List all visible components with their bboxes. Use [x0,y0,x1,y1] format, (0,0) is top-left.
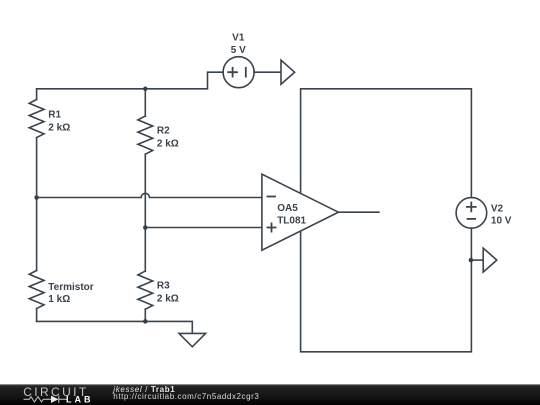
wire left vertical top (R1 lead) [36,89,38,100]
svg-text:http://circuitlab.com/c7n5addx: http://circuitlab.com/c7n5addx2cgr3 [113,392,259,401]
wire middle vertical top (R2 lead) [144,89,146,116]
resistor Termistor [29,271,44,309]
logo diode triangle [51,396,59,403]
svg-text:2 kΩ: 2 kΩ [157,293,179,304]
wire top horizontal from R1 to V1 step [37,72,224,89]
svg-text:2 kΩ: 2 kΩ [48,122,70,133]
op-amp plus input mark [267,223,277,233]
svg-text:2 kΩ: 2 kΩ [157,139,179,150]
wire V2 bottom flag stub [471,259,483,261]
wire op-amp output [338,211,379,213]
svg-text:5 V: 5 V [231,45,246,56]
op-amp OA5 triangle [262,174,339,250]
resistor R3 [138,271,153,309]
svg-text:OA5: OA5 [277,203,298,214]
ground symbol [179,333,206,346]
resistor R1 [29,100,44,138]
svg-text:10 V: 10 V [491,215,512,226]
wire noninverting input [145,227,262,229]
V2 plus sign [466,202,477,213]
net flag at V2 bottom node [483,248,497,272]
svg-text:TL081: TL081 [277,215,306,226]
V1 minus bar (rotated) [245,67,247,78]
node dot bottom R3 [143,319,148,324]
voltage source V2 circle [456,198,487,229]
wire middle vertical bottom [144,309,146,321]
svg-text:R3: R3 [157,280,170,291]
V1 plus sign [227,67,238,78]
svg-text:R2: R2 [157,126,170,137]
node dot V2 bottom [469,258,474,263]
wire bottom horizontal to ground [37,321,193,333]
resistor R2 [138,116,153,154]
footer bar [0,384,540,405]
node dot top R2 [143,87,148,92]
op-amp minus input mark [267,196,276,198]
V2 minus sign [467,218,476,220]
node dot middle noninverting [143,225,148,230]
wire middle vertical between R2 and R3 [144,154,146,271]
net flag at V1 output [281,60,295,84]
voltage source V1 circle [223,57,254,88]
plus minus marks [227,67,476,233]
wire V1 output to flag [254,71,281,73]
svg-text:LAB: LAB [66,394,94,404]
svg-text:R1: R1 [48,109,61,120]
logo glyph wire resistor diode [24,396,68,403]
wire inverting input with hop over middle vertical [37,193,262,197]
svg-text:V2: V2 [491,203,504,214]
node dot left inverting [34,195,39,200]
feedback rectangle wire loop [301,89,472,352]
svg-text:V1: V1 [232,32,245,43]
svg-text:Termistor: Termistor [48,282,93,293]
wire left vertical bottom [36,309,38,322]
wire left vertical middle [36,138,38,271]
svg-text:1 kΩ: 1 kΩ [48,294,70,305]
